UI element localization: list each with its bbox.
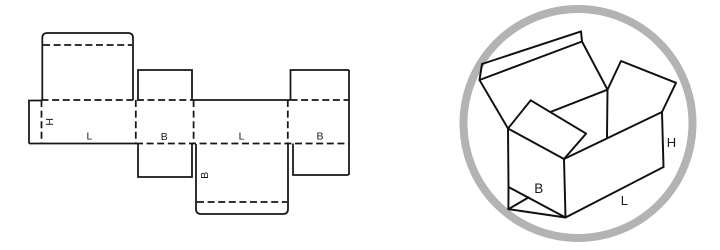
flat blank: vertical fold B1/L2 — [193, 100, 195, 144]
3D box: front rim edge (L face top) — [564, 112, 662, 159]
flat blank: bottom cut edge under glue flap and L1 — [29, 143, 136, 145]
svg-text:L: L — [86, 131, 92, 143]
3D box: tall open flap face — [480, 42, 608, 129]
3D box: back-left rim edge — [508, 90, 608, 129]
3D box: back-right flap — [608, 61, 677, 112]
svg-text:B: B — [316, 131, 323, 143]
svg-text:B: B — [199, 172, 211, 179]
3D box: bottom triangle base — [508, 209, 565, 217]
flat blank: vertical fold L1/B1 — [135, 100, 137, 144]
3D box: front-left B flap (folded over opening) — [508, 100, 586, 159]
flat blank: strip top fold line left — [42, 99, 193, 101]
3D box: tall flap crease band — [480, 31, 583, 80]
svg-text:B: B — [534, 181, 543, 196]
3D box: right vertical edge — [662, 112, 664, 167]
3D box: interior back vertical edge — [606, 90, 609, 137]
flat blank: L2 bottom flap outline — [196, 144, 288, 214]
flat blank: L1 top flap crease — [43, 44, 132, 46]
svg-text:B: B — [161, 131, 168, 143]
flat blank: strip top fold line right — [291, 99, 350, 101]
gray circle ring — [464, 9, 693, 238]
3D box: L face bottom edge — [566, 167, 664, 218]
flat blank: B2 top flap outline — [291, 70, 350, 100]
flat blank: B1 bottom flap outline — [138, 144, 192, 178]
svg-text:L: L — [239, 130, 245, 142]
flat blank: strip bottom fold line — [136, 143, 349, 145]
flat blank: L1 top flap outline — [42, 33, 133, 100]
3D box: bottom triangle crease — [508, 197, 528, 209]
flat blank: vertical fold L2/B2 — [287, 100, 289, 144]
flat blank: B1 top flap outline — [138, 70, 192, 100]
flat blank: vertical fold glue/L1 — [41, 100, 43, 144]
flat blank: right cut edge of B2 column — [348, 70, 350, 175]
3D box: B face outline — [508, 129, 566, 218]
flat blank: glue flap outline — [29, 101, 42, 144]
flat blank: L2 bottom flap crease — [197, 201, 287, 203]
3D box: bottom triangle left edge — [507, 187, 509, 209]
svg-text:H: H — [44, 118, 56, 126]
svg-text:L: L — [621, 193, 628, 208]
flat blank: B2 bottom flap outline — [293, 144, 349, 176]
flat blank: L2 top cut edge — [192, 99, 291, 101]
svg-text:H: H — [667, 135, 676, 150]
